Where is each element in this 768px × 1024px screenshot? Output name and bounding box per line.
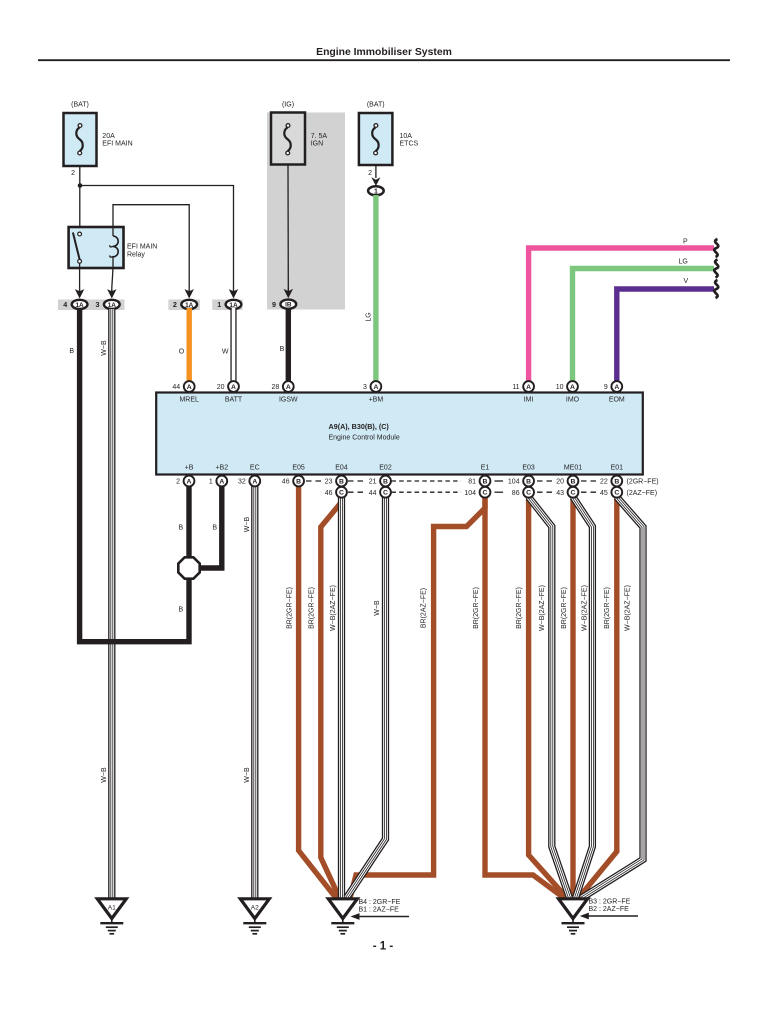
ECM bottom connector label E05 xyxy=(292,465,305,472)
gray panel behind IG ignition fuse xyxy=(267,113,345,310)
fuse 7.5A IGN box xyxy=(271,113,305,165)
wire label B (4-1A wire) xyxy=(69,348,74,355)
svg-text:10: 10 xyxy=(556,384,564,391)
svg-text:2: 2 xyxy=(173,300,177,309)
wire fuse EFI MAIN to relay xyxy=(79,166,81,233)
fuse 10A ETCS box xyxy=(359,113,393,165)
svg-text:EC: EC xyxy=(250,465,260,472)
wire O (orange) connector 2-1A to ECM pin 44 xyxy=(186,308,191,382)
wire label BR(2GR-FE) E1 xyxy=(473,587,480,629)
svg-text:E1: E1 xyxy=(481,465,490,472)
svg-text:46: 46 xyxy=(325,490,333,497)
label (BAT) for fuse ETCS xyxy=(367,102,385,109)
svg-text:1A: 1A xyxy=(229,302,238,309)
svg-text:BR(2GR−FE): BR(2GR−FE) xyxy=(561,587,568,629)
ECM bottom pin 45 C xyxy=(600,487,622,498)
ECM bottom connector label ME01 xyxy=(564,465,582,472)
wire label BR(2GR-FE) ME01 xyxy=(561,587,568,629)
svg-text:- 1 -: - 1 - xyxy=(373,941,394,953)
ECM bottom pin 21 B xyxy=(369,476,391,487)
dashed link row C xyxy=(581,491,599,493)
svg-text:11: 11 xyxy=(512,384,519,391)
svg-text:10A: 10A xyxy=(400,133,413,140)
dashed link row C xyxy=(537,491,555,493)
value label 7.5A IGN xyxy=(311,133,328,148)
svg-text:E01: E01 xyxy=(611,465,624,472)
ECM bottom pin 1 A xyxy=(209,476,227,487)
gray band behind connectors 4-1A and 3-1A xyxy=(58,300,125,311)
svg-text:E03: E03 xyxy=(522,465,535,472)
ECM top pin 9 A (EOM) xyxy=(604,381,625,403)
svg-text:BR(2GR−FE): BR(2GR−FE) xyxy=(516,587,523,629)
wire label W-B upper xyxy=(101,340,108,356)
pin 2 of fuse EFI MAIN xyxy=(71,170,75,177)
svg-text:2: 2 xyxy=(71,170,75,177)
svg-text:BR(2AZ−FE): BR(2AZ−FE) xyxy=(420,588,427,628)
wire BR(2GR-FE) from ECM pin 20 B (ME01) to ground B3 xyxy=(570,485,575,898)
wire B from ECM pin 1 (+B2) to splice xyxy=(201,485,222,568)
svg-text:9: 9 xyxy=(604,384,608,391)
wire label V xyxy=(684,278,689,285)
continuation squiggle of wire LG xyxy=(714,260,718,278)
svg-text:O: O xyxy=(179,349,185,356)
ECM top pin 20 A (BATT) xyxy=(217,381,243,403)
svg-text:W−B: W−B xyxy=(374,600,381,616)
svg-text:W−B: W−B xyxy=(101,767,108,783)
svg-text:B: B xyxy=(212,525,217,532)
svg-text:3: 3 xyxy=(363,384,367,391)
wire label BR(2GR-FE) E05 xyxy=(286,587,293,629)
relay EFI MAIN Relay box xyxy=(69,227,124,268)
wire label B (IGSW wire) xyxy=(280,346,285,353)
wire label W-B (EC upper) xyxy=(244,516,251,532)
svg-text:EFI MAIN: EFI MAIN xyxy=(102,140,132,147)
relay switch contact xyxy=(73,232,82,263)
svg-text:B: B xyxy=(69,348,74,355)
svg-text:45: 45 xyxy=(600,490,608,497)
wire W-B(2AZ-FE) from ECM pin 46 C (E04) to ground B1 xyxy=(338,496,345,899)
dashed link row B xyxy=(537,480,555,482)
svg-text:A: A xyxy=(187,384,192,391)
junction node below fuse EFI MAIN xyxy=(78,183,83,188)
wire B from ECM pin 2 (+B) to splice xyxy=(186,485,191,558)
svg-text:W−B: W−B xyxy=(244,767,251,783)
svg-text:LG: LG xyxy=(365,312,372,321)
wire label W-B(2AZ-FE) E01 xyxy=(625,585,632,631)
wire label W-B lower xyxy=(101,767,108,783)
wire label B (+B2 wire) xyxy=(212,525,217,532)
svg-text:IB: IB xyxy=(285,302,292,309)
svg-text:86: 86 xyxy=(512,490,520,497)
ECM bottom pin 44 C xyxy=(369,487,391,498)
ECM bottom connector label EC xyxy=(250,465,260,472)
ECM bottom pin 32 A xyxy=(238,476,260,487)
svg-text:23: 23 xyxy=(325,479,333,486)
dashed link row B xyxy=(495,480,504,482)
wire W-B from ECM pins 21 B / 44 C (E02) to ground B4/B1 xyxy=(347,496,386,898)
wire B from connector 4-1A down to corner (thick black) xyxy=(80,309,189,642)
svg-text:C: C xyxy=(526,490,531,497)
svg-text:BR(2GR−FE): BR(2GR−FE) xyxy=(604,587,611,629)
svg-text:A: A xyxy=(231,384,236,391)
wire BR(2GR-FE) from ECM pin 104 B (E03) to ground B3 xyxy=(529,485,567,898)
wire label BR(2AZ-FE) E1 xyxy=(420,588,427,628)
svg-text:V: V xyxy=(684,278,689,285)
svg-text:W−B(2AZ−FE): W−B(2AZ−FE) xyxy=(539,585,546,631)
svg-text:B4 : 2GR−FE: B4 : 2GR−FE xyxy=(359,899,401,906)
engine variant label (2AZ-FE) row C xyxy=(627,490,658,497)
svg-text:B: B xyxy=(296,479,301,486)
wire BR(2GR-FE) from ECM pin 46 B (E05) to ground B4 xyxy=(299,485,336,898)
ECM A9(A), B30(B), (C) Engine Control Module box xyxy=(156,393,643,475)
svg-text:1: 1 xyxy=(209,479,213,486)
connector 3 1A (relay coil output) xyxy=(96,288,120,309)
svg-text:IGSW: IGSW xyxy=(279,397,298,404)
svg-text:A2: A2 xyxy=(251,905,259,912)
svg-text:21: 21 xyxy=(369,479,377,486)
wire P (pink) to ECM pin 11 IMI xyxy=(529,248,714,382)
svg-text:W: W xyxy=(222,349,229,356)
svg-text:20: 20 xyxy=(217,384,225,391)
svg-text:A: A xyxy=(614,384,619,391)
svg-text:81: 81 xyxy=(468,479,476,486)
svg-text:W−B(2AZ−FE): W−B(2AZ−FE) xyxy=(581,585,588,631)
svg-text:B: B xyxy=(383,479,388,486)
value label 20A EFI MAIN xyxy=(102,133,132,148)
ECM bottom pin 46 B xyxy=(282,476,304,487)
ECM bottom connector label E01 xyxy=(611,465,624,472)
svg-text:1A: 1A xyxy=(108,302,117,309)
svg-text:(2AZ−FE): (2AZ−FE) xyxy=(627,490,658,497)
svg-text:C: C xyxy=(614,490,619,497)
wire W-B(2AZ-FE) from ECM pin 43 C (ME01) to ground B2 xyxy=(573,497,592,898)
svg-text:104: 104 xyxy=(508,479,520,486)
gray band behind connector 2-1A xyxy=(168,300,200,311)
wire label W-B (EC lower) xyxy=(244,767,251,783)
ECM bottom connector label +B xyxy=(185,465,194,472)
wire label W-B(2AZ-FE) E04 xyxy=(330,585,337,631)
continuation squiggle of wire V xyxy=(714,280,718,298)
svg-text:A: A xyxy=(526,384,531,391)
ECM bottom pin 46 C xyxy=(325,487,347,498)
ECM bottom connector label +B2 xyxy=(215,465,228,472)
svg-text:B: B xyxy=(526,479,531,486)
ECM bottom pin 20 B xyxy=(556,476,578,487)
svg-text:A1: A1 xyxy=(108,905,116,912)
wire W-B(2AZ-FE) from ECM pin 86 C (E03) to ground B2 xyxy=(529,497,570,898)
svg-text:W−B(2AZ−FE): W−B(2AZ−FE) xyxy=(330,585,337,631)
connector 9 IB xyxy=(272,288,296,309)
svg-text:W−B: W−B xyxy=(244,516,251,532)
svg-text:ME01: ME01 xyxy=(564,465,582,472)
dashed link row B xyxy=(581,480,599,482)
wire label O xyxy=(179,349,185,356)
ECM bottom pin 23 B xyxy=(325,476,347,487)
connector 2 1A xyxy=(173,288,197,309)
svg-text:104: 104 xyxy=(464,490,476,497)
wire BR(2GR-FE) from ECM pin 23 B (E04) to ground B4 xyxy=(321,495,342,898)
pin 2 of fuse ETCS xyxy=(368,170,372,177)
svg-text:2: 2 xyxy=(176,479,180,486)
svg-text:43: 43 xyxy=(556,490,564,497)
dashed link row C xyxy=(495,491,504,493)
ground A1 xyxy=(97,899,126,934)
wire label BR(2GR-FE) E04 xyxy=(309,587,316,629)
svg-text:LG: LG xyxy=(679,259,688,266)
dashed link row C xyxy=(348,491,366,493)
svg-text:32: 32 xyxy=(238,479,246,486)
svg-text:7. 5A: 7. 5A xyxy=(311,133,328,140)
svg-text:1A: 1A xyxy=(76,302,85,309)
svg-text:B: B xyxy=(614,479,619,486)
relay coil xyxy=(110,227,118,268)
wire label B (+B wire) xyxy=(179,525,184,532)
svg-text:44: 44 xyxy=(369,490,377,497)
continuation squiggle of wire P xyxy=(714,239,718,257)
svg-text:MREL: MREL xyxy=(179,397,199,404)
svg-text:2: 2 xyxy=(368,170,372,177)
engine variant label (2GR-FE) row B xyxy=(627,479,659,486)
ECM bottom pin 81 B xyxy=(468,476,490,487)
wire BR(2GR-FE) from ECM pin 81 B (E1) to ground B3 xyxy=(485,485,564,898)
ECM top pin 10 A (IMO) xyxy=(556,381,580,403)
svg-text:28: 28 xyxy=(272,384,280,391)
wire label LG (right) xyxy=(679,259,688,266)
label (IG) for fuse IGN xyxy=(282,102,294,109)
relay name label xyxy=(127,244,157,259)
wire relay switch to connector 4-1A xyxy=(79,263,81,288)
dashed link row B xyxy=(392,480,462,482)
fuse 20A EFI MAIN box xyxy=(64,113,97,166)
wire B connector 9-IB to ECM pin 28 xyxy=(286,308,291,382)
svg-text:IGN: IGN xyxy=(311,140,323,147)
ECM bottom pin 104 B xyxy=(508,476,534,487)
svg-text:1: 1 xyxy=(217,300,221,309)
svg-text:A: A xyxy=(252,479,257,486)
ground label B3 : 2GR-FE / B2 : 2AZ-FE xyxy=(580,899,638,920)
wire label BR(2GR-FE) E03 xyxy=(516,587,523,629)
svg-text:B: B xyxy=(179,525,184,532)
svg-text:EOM: EOM xyxy=(609,397,625,404)
header rule xyxy=(38,59,730,61)
svg-text:Engine Immobiliser System: Engine Immobiliser System xyxy=(316,47,452,58)
svg-text:(IG): (IG) xyxy=(282,102,294,109)
ECM bottom connector label E04 xyxy=(335,465,348,472)
title: Engine Immobiliser System xyxy=(316,47,452,58)
ECM bottom connector label E1 xyxy=(481,465,490,472)
ground label B4 : 2GR-FE / B1 : 2AZ-FE xyxy=(351,899,410,920)
svg-text:3: 3 xyxy=(96,300,100,309)
dashed link row C xyxy=(392,491,462,493)
svg-text:1: 1 xyxy=(374,188,378,195)
svg-text:BR(2GR−FE): BR(2GR−FE) xyxy=(473,587,480,629)
svg-text:E04: E04 xyxy=(335,465,348,472)
svg-text:20A: 20A xyxy=(102,133,115,140)
svg-text:(BAT): (BAT) xyxy=(367,102,385,109)
svg-text:22: 22 xyxy=(600,479,608,486)
svg-text:P: P xyxy=(683,239,688,246)
connector 1 1A xyxy=(217,288,241,309)
wire W-B(2AZ-FE) from ECM pin 45 C (E01) to ground B2 xyxy=(582,497,644,898)
dashed link row B xyxy=(348,480,366,482)
gray band behind connector 1-1A xyxy=(212,300,242,311)
splice octagon node xyxy=(178,557,199,578)
svg-text:4: 4 xyxy=(63,300,67,309)
svg-text:(BAT): (BAT) xyxy=(71,102,89,109)
ECM bottom pin 43 C xyxy=(556,487,578,498)
wire label W-B(2AZ-FE) E03 xyxy=(539,585,546,631)
wire relay coil to connector 2-1A xyxy=(113,205,189,288)
svg-text:E02: E02 xyxy=(379,465,392,472)
svg-text:B: B xyxy=(179,607,184,614)
wire BR(2GR-FE) from ECM pin 22 B (E01) to ground B3 xyxy=(579,485,617,898)
ECM top pin 11 A (IMI) xyxy=(512,381,534,403)
ECM bottom pin 2 A xyxy=(176,476,194,487)
wire W-B from ECM pin 32 (EC) to ground A2 xyxy=(251,485,258,899)
svg-text:C: C xyxy=(571,490,576,497)
svg-text:E05: E05 xyxy=(292,465,305,472)
ECM bottom connector label E03 xyxy=(522,465,535,472)
wire label B (below splice) xyxy=(179,607,184,614)
svg-text:B3 : 2GR−FE: B3 : 2GR−FE xyxy=(589,899,631,906)
wire fuse ETCS to connector 1 xyxy=(375,165,377,178)
svg-text:B: B xyxy=(280,346,285,353)
svg-text:B1 : 2AZ−FE: B1 : 2AZ−FE xyxy=(359,907,400,914)
svg-text:46: 46 xyxy=(282,479,290,486)
svg-text:B: B xyxy=(339,479,344,486)
ECM top pin 3 A (+BM) xyxy=(363,381,383,403)
svg-text:B2 : 2AZ−FE: B2 : 2AZ−FE xyxy=(589,906,630,913)
svg-text:C: C xyxy=(483,490,488,497)
svg-text:W−B: W−B xyxy=(101,340,108,356)
svg-text:BR(2GR−FE): BR(2GR−FE) xyxy=(309,587,316,629)
wire junction to connector 1-1A xyxy=(80,186,234,289)
svg-text:Engine Control Module: Engine Control Module xyxy=(329,435,400,442)
ECM top pin 44 A (MREL) xyxy=(172,381,199,403)
svg-text:A: A xyxy=(187,479,192,486)
svg-text:C: C xyxy=(339,490,344,497)
svg-text:44: 44 xyxy=(172,384,180,391)
ground B3/B2 xyxy=(559,899,588,934)
svg-text:W−B(2AZ−FE): W−B(2AZ−FE) xyxy=(625,585,632,631)
dashed link row B xyxy=(306,480,325,482)
ECM top pin 28 A (IGSW) xyxy=(272,381,299,403)
ECM bottom pin 104 C xyxy=(464,487,490,498)
svg-text:B: B xyxy=(483,479,488,486)
label (BAT) for fuse EFI MAIN xyxy=(71,102,89,109)
svg-text:IMO: IMO xyxy=(566,397,580,404)
page number xyxy=(373,941,394,953)
connector 4 1A (relay switch output) xyxy=(63,288,87,309)
svg-text:EFI MAIN: EFI MAIN xyxy=(127,244,157,251)
ECM bottom pin 86 C xyxy=(512,487,534,498)
svg-text:+B2: +B2 xyxy=(215,465,228,472)
ECM bottom connector label E02 xyxy=(379,465,392,472)
wire LG connector 1 to ECM pin 3 xyxy=(373,195,378,382)
wire relay coil to connector 3-1A xyxy=(112,268,113,288)
value label 10A ETCS xyxy=(400,133,419,148)
svg-text:A: A xyxy=(286,384,291,391)
wire fuse IGN to connector 9-IB xyxy=(287,165,289,289)
ground A2 xyxy=(240,899,269,934)
wire W-B from connector 3-1A to ground A1 xyxy=(108,309,115,899)
svg-text:Relay: Relay xyxy=(127,251,145,258)
ECM bottom pin 22 B xyxy=(600,476,622,487)
wire label BR(2GR-FE) E01 xyxy=(604,587,611,629)
svg-text:20: 20 xyxy=(556,479,564,486)
svg-text:A9(A), B30(B), (C): A9(A), B30(B), (C) xyxy=(329,422,390,431)
svg-text:9: 9 xyxy=(272,300,276,309)
svg-text:BR(2GR−FE): BR(2GR−FE) xyxy=(286,587,293,629)
svg-text:1A: 1A xyxy=(185,302,194,309)
svg-text:IMI: IMI xyxy=(524,397,534,404)
ground B4/B1 xyxy=(328,899,357,934)
svg-text:+BM: +BM xyxy=(369,397,384,404)
svg-text:BATT: BATT xyxy=(225,397,243,404)
svg-text:C: C xyxy=(383,490,388,497)
svg-text:A: A xyxy=(219,479,224,486)
svg-text:ETCS: ETCS xyxy=(400,140,419,147)
wire label P xyxy=(683,239,688,246)
wire V (violet) to ECM pin 9 EOM xyxy=(617,289,714,382)
wire label W-B E02 xyxy=(374,600,381,616)
svg-text:B: B xyxy=(571,479,576,486)
wire label LG xyxy=(365,312,372,321)
svg-text:(2GR−FE): (2GR−FE) xyxy=(627,479,659,486)
wire label W-B(2AZ-FE) ME01 xyxy=(581,585,588,631)
connector 1 (ETCS) xyxy=(368,177,384,195)
svg-text:+B: +B xyxy=(185,465,194,472)
wire LG (green) to ECM pin 10 IMO xyxy=(573,269,715,382)
svg-text:A: A xyxy=(373,384,378,391)
wire BR(2AZ-FE) from ECM pin 104 C (E1) to ground B1 xyxy=(350,496,485,898)
svg-text:A: A xyxy=(570,384,575,391)
wire label W xyxy=(222,349,229,356)
wire W connector 1-1A to ECM pin 20 xyxy=(230,308,236,382)
